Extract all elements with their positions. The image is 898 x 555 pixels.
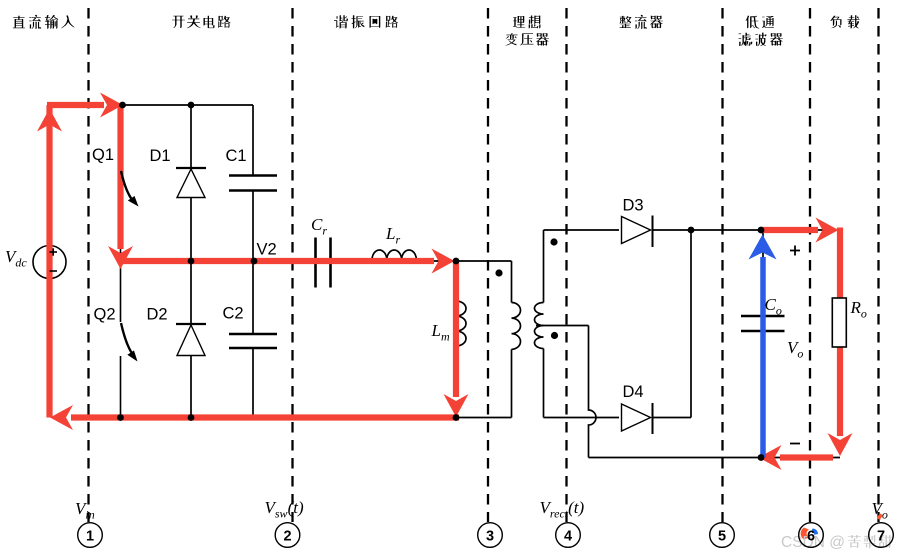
capacitor C1	[252, 105, 254, 175]
node number 4	[556, 523, 581, 548]
section title: load	[830, 15, 859, 28]
wire: top rail	[121, 104, 254, 106]
inductor Lr (resonant)	[372, 250, 416, 260]
transformer polarity dot secondary top	[550, 238, 557, 245]
red current arrow: output bottom leftwards	[780, 454, 833, 460]
node number 5	[710, 523, 735, 548]
section divider dashed line 7	[877, 8, 879, 522]
section title: low-pass filter (2 lines)	[746, 16, 774, 29]
wire: bottom rail	[121, 417, 512, 419]
wire: center tap vertical with hop over D4 wire	[589, 326, 597, 458]
junction node dot	[453, 258, 460, 265]
Vdc minus mark	[50, 270, 58, 272]
svg-text:5: 5	[718, 529, 726, 545]
transistor switch Q1	[120, 105, 122, 261]
section title: rectifier	[619, 15, 663, 29]
node number 6	[799, 523, 824, 548]
node number 3	[478, 523, 503, 548]
wire: secondary top to D3	[544, 229, 620, 231]
section divider dashed line 6	[809, 8, 811, 522]
section title: resonant tank	[334, 15, 398, 28]
svg-text:V2: V2	[257, 241, 277, 259]
junction node dot	[117, 414, 124, 421]
junction node dot	[758, 454, 765, 461]
wire: center tap horizontal	[536, 325, 589, 327]
Vdc plus mark	[50, 251, 58, 253]
blue current arrow: through Co upward	[760, 257, 766, 458]
watermark text kuli tian	[848, 535, 892, 549]
svg-text:1: 1	[86, 529, 94, 545]
output plus mark	[790, 250, 800, 252]
diode D3	[622, 217, 651, 244]
red current arrow: output top rightwards	[763, 227, 818, 233]
diode D1	[190, 105, 192, 168]
junction node dot	[453, 414, 460, 421]
section divider dashed line 2	[291, 8, 293, 522]
svg-text:D3: D3	[623, 197, 644, 215]
svg-text:Q1: Q1	[92, 146, 114, 164]
wire: output bottom rail	[589, 457, 841, 459]
capacitor C2	[252, 261, 254, 334]
junction node dot	[188, 414, 195, 421]
red current arrow: Q1 vertical down	[117, 103, 123, 249]
transistor switch Q2	[120, 261, 122, 322]
svg-text:3: 3	[486, 529, 494, 545]
output minus mark	[790, 443, 800, 445]
node number 1	[78, 523, 103, 548]
section divider dashed line 1	[87, 8, 89, 522]
capacitor Co	[762, 230, 764, 458]
svg-text:C1: C1	[226, 147, 247, 165]
node number 2	[275, 523, 300, 548]
junction node dot	[188, 258, 195, 265]
transformer polarity dot primary	[495, 269, 502, 276]
svg-text:2: 2	[283, 529, 291, 545]
red current arrow: Lm vertical down	[453, 261, 459, 397]
junction node dot	[188, 102, 195, 109]
red current arrow: load vertical down	[837, 228, 843, 437]
svg-text:D4: D4	[623, 383, 644, 401]
inductor Lm (magnetizing)	[456, 301, 466, 346]
svg-text:6: 6	[807, 529, 815, 545]
wire: secondary bottom to D4 anode	[544, 417, 620, 419]
section title: DC input	[13, 15, 75, 29]
transformer polarity dot secondary bottom	[551, 332, 558, 339]
voltage source Vdc circle	[33, 246, 66, 279]
red current arrow: bottom rail leftwards	[71, 414, 459, 420]
junction node dot	[758, 227, 765, 234]
resistor Ro	[832, 298, 846, 347]
svg-text:C2: C2	[223, 305, 244, 323]
transformer primary winding	[511, 261, 513, 303]
section title: switch network	[172, 16, 230, 29]
switch blade arrow Q1	[121, 171, 132, 200]
svg-text:4: 4	[564, 529, 572, 545]
watermark CSDN logo fragment (orange/blue)	[801, 528, 809, 540]
section title: ideal transformer (2 lines)	[513, 16, 540, 29]
node number 7	[869, 523, 894, 548]
red current arrow: top-left horizontal into Q1 node	[47, 102, 104, 108]
junction node dot	[688, 227, 695, 234]
section divider dashed line 4	[565, 8, 567, 522]
svg-text:D1: D1	[150, 147, 171, 165]
capacitor Cr (resonant)	[314, 238, 317, 288]
transformer secondary winding	[543, 230, 545, 303]
red current arrow: mid rail horizontal through Cr and Lr	[123, 258, 434, 264]
red current arrow: left loop vertical (through Vdc)	[46, 105, 52, 418]
svg-text:Q2: Q2	[94, 306, 116, 324]
junction node dot	[119, 102, 126, 109]
wire: D3/D4 cathode vertical	[690, 230, 692, 418]
wire: mid rail (V2 node rail)	[121, 260, 512, 262]
section divider dashed line 5	[721, 8, 723, 522]
junction node dot	[251, 258, 258, 265]
diode D4	[622, 404, 651, 431]
section divider dashed line 3	[487, 8, 489, 522]
switch blade arrow Q2	[121, 323, 133, 354]
svg-text:D2: D2	[147, 306, 168, 324]
svg-text:7: 7	[877, 529, 885, 545]
diode D2	[190, 261, 192, 324]
